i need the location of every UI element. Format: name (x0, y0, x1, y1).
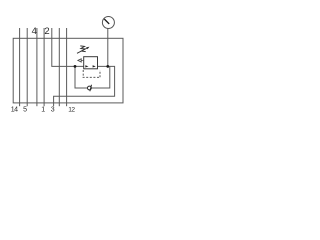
svg-text:14: 14 (11, 106, 18, 113)
svg-text:3: 3 (51, 106, 55, 113)
svg-text:5: 5 (23, 106, 27, 113)
svg-text:4: 4 (32, 26, 37, 37)
svg-text:12: 12 (68, 106, 75, 113)
svg-text:2: 2 (44, 26, 49, 37)
svg-text:1: 1 (41, 106, 45, 113)
